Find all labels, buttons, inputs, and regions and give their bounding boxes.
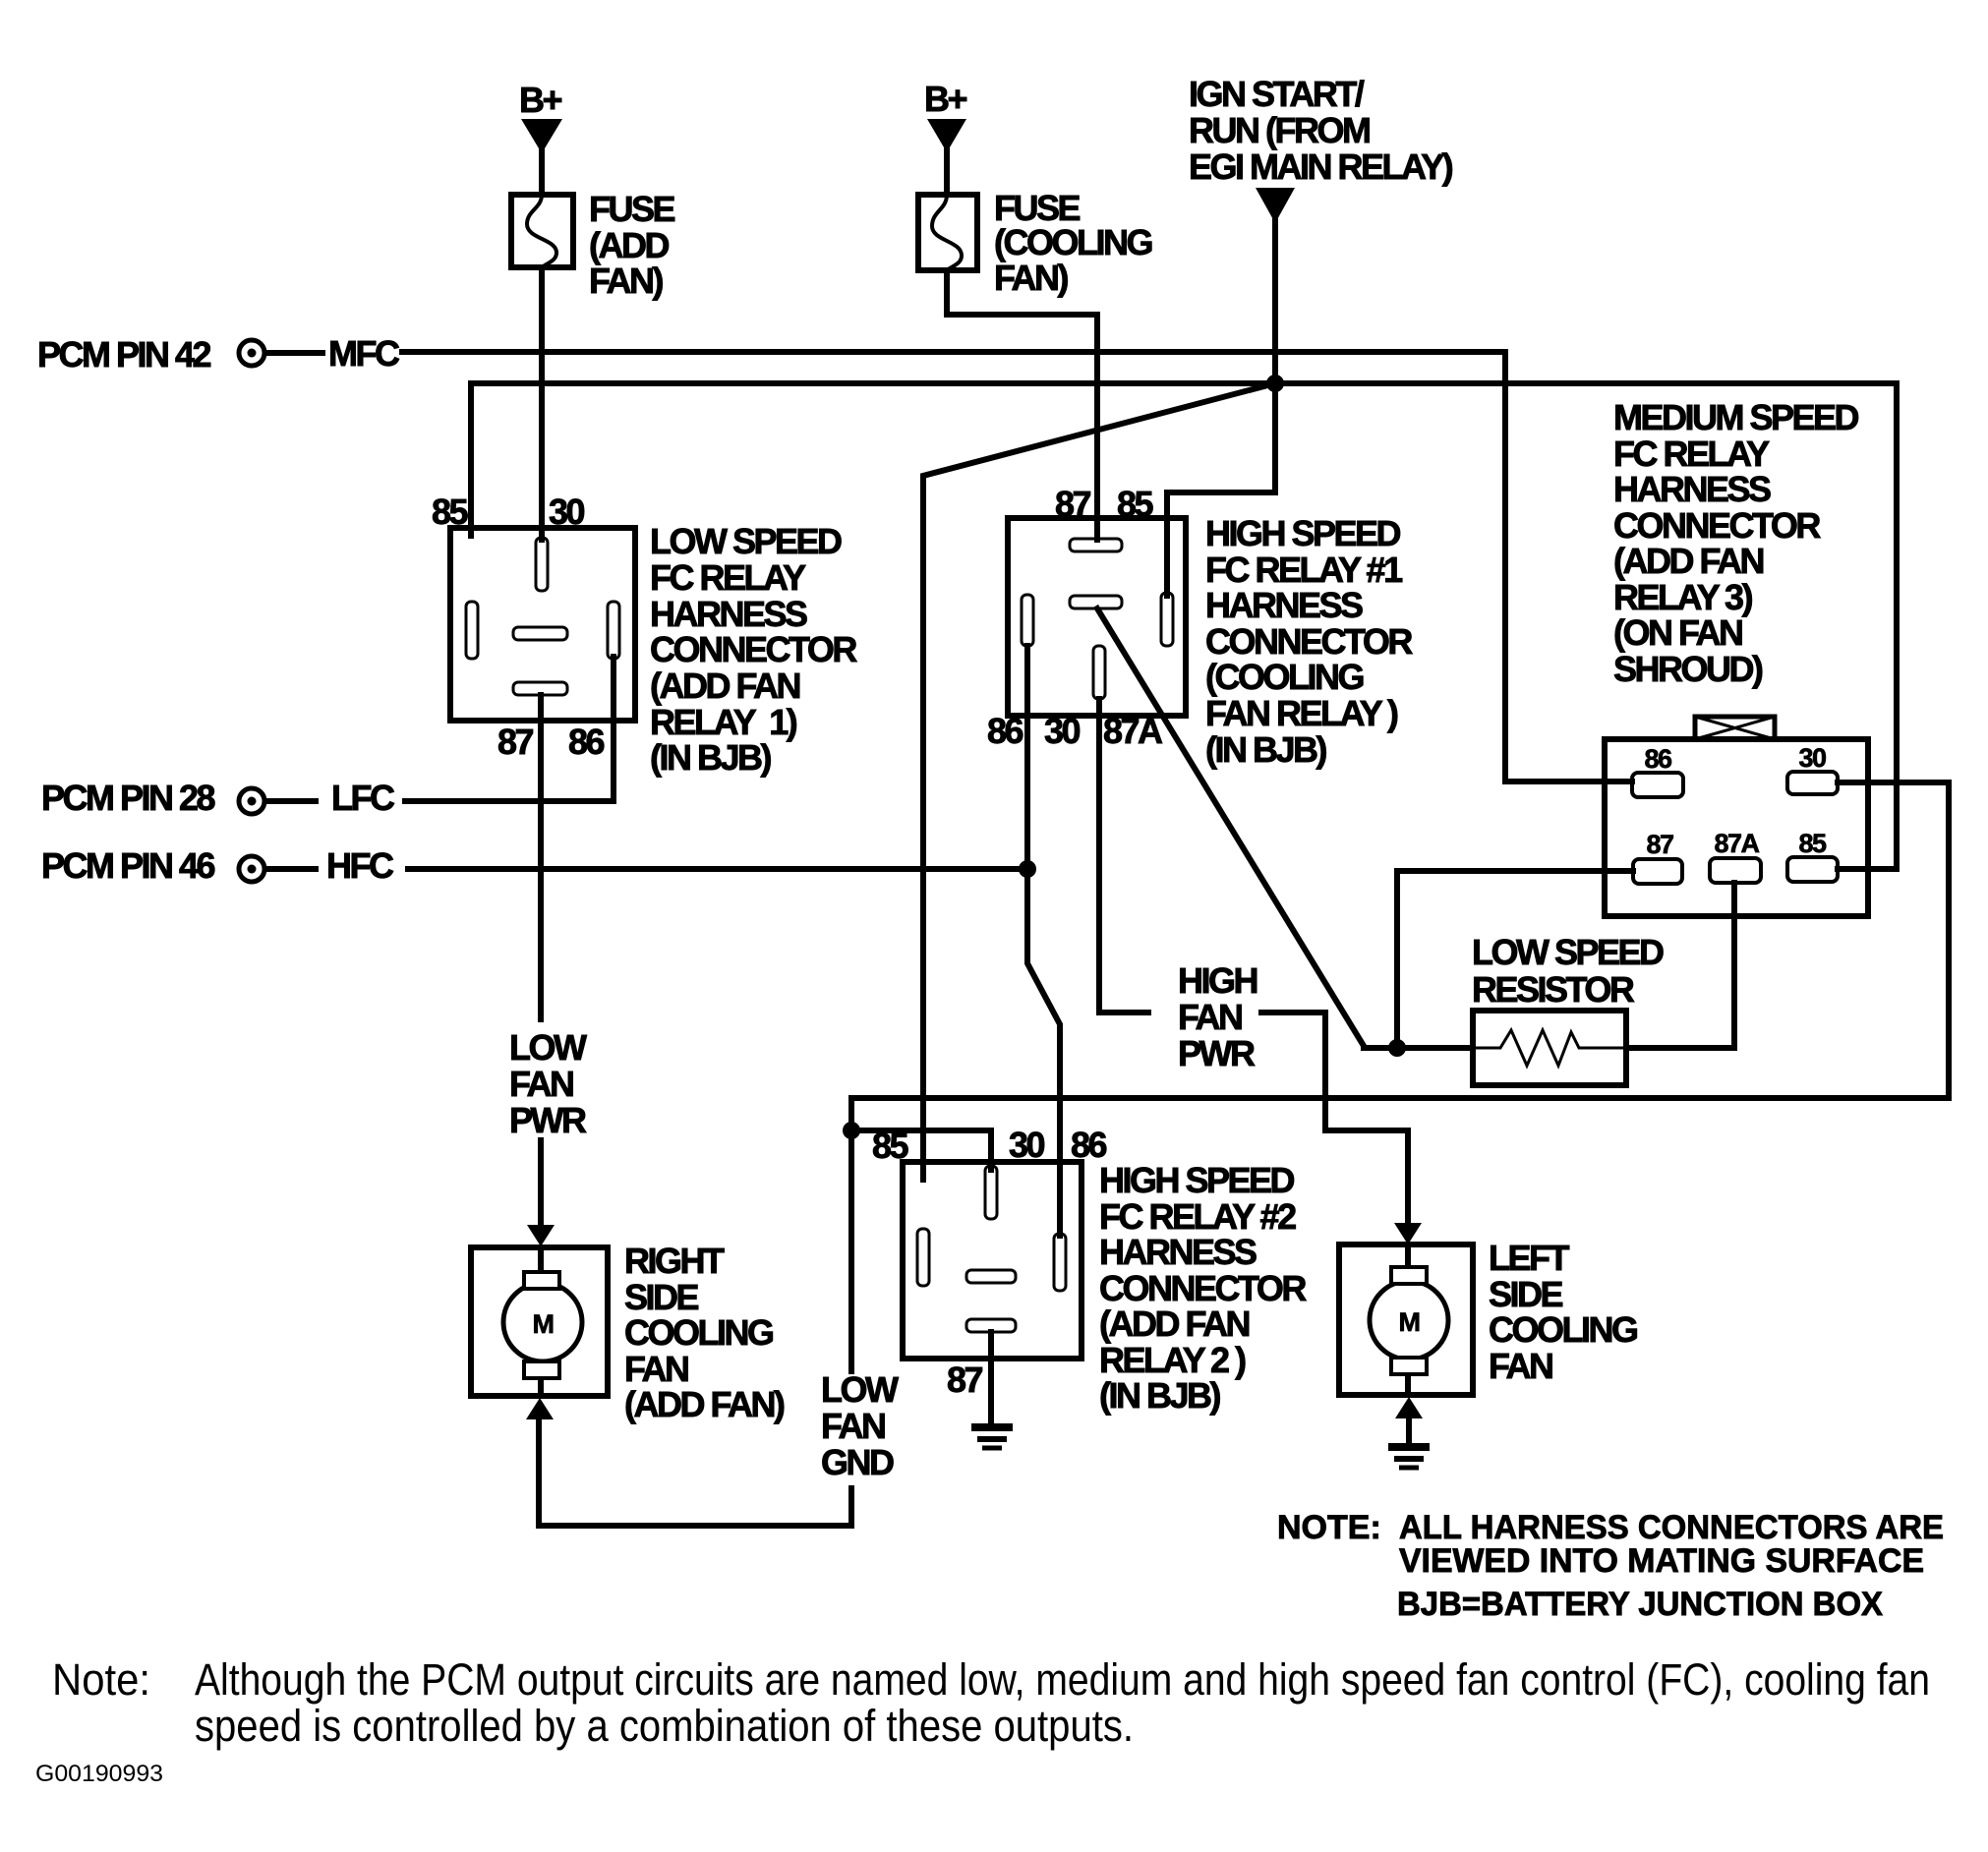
svg-text:(ADD: (ADD: [589, 225, 669, 265]
wire relay R3 pin 87 to resistor node: [1397, 871, 1633, 1048]
svg-text:MEDIUM SPEED: MEDIUM SPEED: [1613, 397, 1859, 437]
svg-text:HIGH SPEED: HIGH SPEED: [1205, 513, 1401, 553]
svg-text:(ADD FAN: (ADD FAN: [1613, 541, 1763, 581]
svg-text:(COOLING: (COOLING: [994, 222, 1151, 262]
svg-text:FAN): FAN): [589, 260, 664, 301]
motor M1 RIGHT SIDE COOLING FAN box: [471, 1247, 608, 1396]
wire IGN net horizontal: [471, 380, 1897, 386]
svg-text:RIGHT: RIGHT: [624, 1241, 725, 1281]
svg-text:FAN RELAY ): FAN RELAY ): [1205, 693, 1398, 733]
svg-text:LOW: LOW: [821, 1369, 899, 1410]
svg-text:NOTE:: NOTE:: [1277, 1509, 1381, 1546]
svg-text:ALL HARNESS CONNECTORS ARE: ALL HARNESS CONNECTORS ARE: [1399, 1509, 1944, 1546]
wire fuse 1 to relay R1 pin 30: [539, 267, 545, 540]
fuse F2 (COOLING FAN): [918, 195, 977, 270]
arrow up below left fan: [1395, 1397, 1423, 1418]
svg-text:G00190993: G00190993: [35, 1761, 163, 1787]
svg-text:CONNECTOR: CONNECTOR: [1099, 1268, 1307, 1308]
svg-text:RELAY 3): RELAY 3): [1613, 577, 1753, 617]
svg-text:FAN): FAN): [994, 258, 1069, 298]
svg-text:LOW SPEED: LOW SPEED: [650, 521, 842, 561]
svg-text:PWR: PWR: [1178, 1033, 1256, 1073]
svg-text:B+: B+: [924, 79, 966, 119]
svg-text:HFC: HFC: [326, 845, 394, 886]
wire LOW FAN GND lower segment: [539, 1418, 851, 1526]
svg-text:30: 30: [1798, 743, 1826, 773]
svg-text:M: M: [533, 1309, 554, 1339]
arrow up below right fan: [526, 1398, 554, 1419]
svg-text:FC RELAY #2: FC RELAY #2: [1099, 1196, 1296, 1237]
svg-text:87A: 87A: [1714, 829, 1759, 858]
svg-text:HARNESS: HARNESS: [1613, 469, 1771, 509]
svg-text:SIDE: SIDE: [624, 1277, 699, 1317]
relay R3 mounting tab (bowtie): [1695, 717, 1775, 739]
svg-text:FUSE: FUSE: [589, 189, 675, 229]
wire LFC net to relay R1 pin 86: [405, 657, 614, 801]
svg-text:MFC: MFC: [328, 333, 400, 374]
svg-text:IGN START/: IGN START/: [1189, 74, 1365, 114]
svg-text:BJB=BATTERY JUNCTION BOX: BJB=BATTERY JUNCTION BOX: [1397, 1586, 1883, 1623]
svg-text:(ADD FAN): (ADD FAN): [624, 1384, 785, 1424]
svg-text:87: 87: [947, 1360, 983, 1400]
wire relay R3 pin 30 drop: [1838, 782, 1949, 1098]
relay R3 terminal 87A: [1710, 858, 1761, 883]
svg-text:85: 85: [432, 492, 469, 532]
svg-text:HARNESS: HARNESS: [650, 594, 807, 634]
svg-text:COOLING: COOLING: [1489, 1309, 1637, 1350]
svg-text:FAN: FAN: [624, 1349, 688, 1389]
svg-text:86: 86: [987, 711, 1023, 751]
wire B+ (add fan) to fuse 1: [539, 147, 545, 195]
wire LOW FAN PWR to right fan: [538, 1140, 544, 1227]
wire left fan inner stubs: [1405, 1244, 1411, 1269]
relay R2 HIGH SPEED FC RELAY #1 harness connector box: [1008, 518, 1186, 716]
wire fuse 2 to relay R2 pin 87: [947, 270, 1097, 540]
fuse F1 (ADD FAN): [511, 195, 573, 267]
wire resistor to relay R3 pin 87A: [1626, 883, 1734, 1048]
svg-text:30: 30: [1009, 1125, 1045, 1165]
svg-text:SIDE: SIDE: [1489, 1274, 1563, 1314]
svg-text:RELAY 1): RELAY 1): [650, 702, 797, 742]
svg-text:B+: B+: [519, 80, 561, 120]
svg-text:86: 86: [568, 722, 605, 762]
wire relay R1 pin 87 to LOW FAN PWR label: [538, 695, 544, 1019]
svg-text:COOLING: COOLING: [624, 1312, 773, 1353]
wire PCM PIN 46 stub: [267, 866, 316, 872]
svg-text:(IN BJB): (IN BJB): [1099, 1375, 1221, 1416]
svg-text:(COOLING: (COOLING: [1205, 657, 1363, 697]
svg-text:CONNECTOR: CONNECTOR: [650, 629, 857, 669]
B+ terminal triangle (add fan): [521, 119, 562, 153]
wire relay R2 pin 86 drop to HFC node and relay R4 pin 86: [1027, 646, 1060, 1236]
svg-text:EGI MAIN RELAY): EGI MAIN RELAY): [1189, 146, 1453, 187]
motor M2 LEFT SIDE COOLING FAN box: [1339, 1244, 1473, 1395]
ground below relay R4 pin 87: [971, 1427, 1013, 1448]
svg-text:RUN (FROM: RUN (FROM: [1189, 110, 1370, 150]
wire HFC net horizontal: [408, 866, 1027, 872]
svg-text:LFC: LFC: [331, 778, 395, 818]
wire bus B left corner down to junction: [848, 1098, 854, 1130]
svg-text:87: 87: [1646, 830, 1673, 859]
svg-text:87A: 87A: [1103, 711, 1163, 751]
relay R3 terminal 87: [1633, 859, 1682, 884]
relay R3 terminal 85: [1787, 857, 1838, 882]
svg-text:HARNESS: HARNESS: [1099, 1232, 1257, 1272]
svg-text:LEFT: LEFT: [1489, 1238, 1569, 1278]
wire IGN net right drop to relay R3 pin 85: [1838, 383, 1897, 869]
resistor LOW SPEED RESISTOR box: [1473, 1011, 1626, 1085]
svg-text:85: 85: [1798, 829, 1827, 858]
svg-text:CONNECTOR: CONNECTOR: [1205, 621, 1413, 662]
ground below left fan: [1388, 1447, 1430, 1468]
wire relay R4 pin 87 to ground: [988, 1332, 994, 1424]
svg-text:86: 86: [1644, 744, 1672, 774]
svg-text:30: 30: [549, 492, 585, 532]
wire junction jog to relay R4 pin 30: [851, 1130, 991, 1170]
svg-text:FC RELAY: FC RELAY: [1613, 434, 1770, 474]
svg-text:RELAY 2 ): RELAY 2 ): [1099, 1340, 1246, 1380]
wire PCM PIN 28 stub: [267, 798, 316, 804]
arrow into right fan: [527, 1225, 555, 1246]
svg-text:Although the PCM output circui: Although the PCM output circuits are nam…: [195, 1654, 1930, 1705]
svg-text:speed is controlled by a combi: speed is controlled by a combination of …: [195, 1701, 1134, 1751]
svg-text:FC RELAY: FC RELAY: [650, 557, 806, 598]
wire PCM PIN 42 stub: [267, 350, 322, 356]
node junction bus B / LOW FAN GND: [843, 1122, 860, 1139]
svg-text:(ON FAN: (ON FAN: [1613, 612, 1742, 653]
wire IGN net drop to relay R1 pin 85 entry: [468, 383, 474, 536]
wire MFC net drop to relay R3 pin 86: [1505, 352, 1632, 781]
node junction IGN/diagonal: [1266, 375, 1284, 392]
svg-text:(ADD FAN: (ADD FAN: [1099, 1303, 1249, 1344]
svg-text:FAN: FAN: [509, 1064, 573, 1104]
svg-text:FC RELAY #1: FC RELAY #1: [1205, 550, 1403, 590]
svg-text:RESISTOR: RESISTOR: [1472, 969, 1635, 1010]
wire diagonal IGN junction to relay R4 pin 85: [923, 383, 1275, 1180]
svg-text:85: 85: [1117, 484, 1154, 524]
PCM PIN 46 terminal circle: [239, 856, 264, 882]
IGN START/RUN terminal triangle: [1256, 188, 1295, 223]
wire diagonal relay R2 middle contact to resistor node: [1097, 608, 1473, 1048]
svg-text:87: 87: [1055, 484, 1091, 524]
svg-text:PCM PIN 46: PCM PIN 46: [41, 845, 215, 886]
svg-text:VIEWED INTO MATING SURFACE: VIEWED INTO MATING SURFACE: [1399, 1542, 1924, 1580]
arrow into left fan: [1394, 1223, 1422, 1244]
svg-text:(IN BJB): (IN BJB): [1205, 729, 1327, 770]
relay R4 HIGH SPEED FC RELAY #2 harness connector box: [903, 1162, 1082, 1359]
svg-text:HIGH SPEED: HIGH SPEED: [1099, 1160, 1295, 1200]
node junction HFC / relay R2 pin 86: [1019, 860, 1036, 878]
wire right fan inner stubs: [538, 1247, 544, 1274]
relay R3 terminal 86: [1632, 773, 1683, 797]
svg-text:30: 30: [1044, 711, 1081, 751]
svg-text:PWR: PWR: [509, 1100, 587, 1140]
wire LOW FAN GND upper segment: [848, 1130, 854, 1371]
svg-text:FAN: FAN: [1489, 1346, 1552, 1386]
relay R3 terminal 30: [1787, 772, 1838, 794]
svg-text:PCM PIN 42: PCM PIN 42: [37, 334, 211, 375]
svg-text:HIGH: HIGH: [1178, 960, 1257, 1001]
relay R1 LOW SPEED FC RELAY harness connector box: [450, 528, 635, 721]
wire B+ (cooling fan) to fuse 2: [944, 147, 950, 195]
svg-text:87: 87: [497, 722, 534, 762]
svg-text:(ADD FAN: (ADD FAN: [650, 666, 799, 706]
svg-text:Note:: Note:: [52, 1654, 150, 1705]
svg-text:85: 85: [872, 1126, 909, 1166]
wire relay R2 pin 30 to HIGH FAN PWR (left of label): [1099, 699, 1148, 1013]
wire HIGH FAN PWR to left fan: [1261, 1013, 1408, 1225]
svg-text:SHROUD): SHROUD): [1613, 649, 1763, 689]
B+ terminal triangle (cooling fan): [927, 119, 966, 152]
wire node junction to relay R2 pin 85: [1167, 383, 1275, 596]
svg-text:GND: GND: [821, 1442, 894, 1482]
wire left fan to ground: [1406, 1417, 1412, 1445]
relay R3 MEDIUM SPEED FC RELAY harness connector box: [1605, 739, 1868, 916]
svg-text:86: 86: [1071, 1125, 1107, 1165]
svg-text:FAN: FAN: [821, 1406, 885, 1446]
svg-text:HARNESS: HARNESS: [1205, 585, 1363, 625]
svg-text:LOW: LOW: [509, 1027, 587, 1068]
wire IGN START/RUN drop: [1272, 221, 1278, 383]
svg-text:FAN: FAN: [1178, 997, 1242, 1037]
node junction resistor input: [1388, 1039, 1406, 1057]
PCM PIN 28 terminal circle: [239, 788, 264, 814]
wire MFC net horizontal: [402, 349, 1505, 355]
svg-text:CONNECTOR: CONNECTOR: [1613, 505, 1821, 546]
svg-text:M: M: [1399, 1307, 1420, 1337]
PCM PIN 42 terminal circle: [239, 340, 264, 366]
wire bus B horizontal: [851, 1095, 1949, 1101]
svg-text:PCM PIN 28: PCM PIN 28: [41, 778, 215, 818]
svg-text:LOW SPEED: LOW SPEED: [1472, 932, 1664, 972]
svg-text:(IN BJB): (IN BJB): [650, 737, 772, 778]
